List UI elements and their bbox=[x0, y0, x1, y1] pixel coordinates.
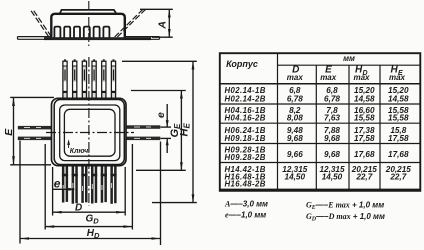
side view left lead bbox=[18, 37, 52, 40]
table grid bbox=[220, 53, 420, 191]
side view right lead bbox=[125, 37, 160, 40]
svg-text:9,68: 9,68 bbox=[324, 134, 340, 143]
dimension D bbox=[53, 167, 126, 216]
svg-text:Корпус: Корпус bbox=[226, 59, 258, 69]
top view horizontal center line bbox=[46, 132, 134, 134]
svg-text:HD: HD bbox=[87, 228, 100, 240]
svg-text:14,58: 14,58 bbox=[388, 94, 409, 103]
side view pins (staple row) bbox=[54, 27, 109, 39]
svg-text:max: max bbox=[287, 73, 304, 82]
svg-text:e: e bbox=[54, 177, 61, 191]
top view top pins bbox=[63, 61, 116, 99]
svg-text:max: max bbox=[389, 73, 406, 82]
table column of package designators bbox=[225, 86, 266, 188]
top view top pin highlights bbox=[64, 62, 115, 90]
side view top lid bbox=[60, 10, 116, 14]
top view bottom pin ticks bbox=[62, 174, 117, 177]
svg-text:15,58: 15,58 bbox=[388, 113, 409, 122]
svg-text:E: E bbox=[3, 128, 15, 136]
notes bbox=[224, 200, 385, 223]
svg-text:17,68: 17,68 bbox=[354, 150, 375, 159]
svg-text:8,08: 8,08 bbox=[287, 113, 303, 122]
dimension A bbox=[140, 9, 173, 37]
top view right leads bbox=[126, 125, 160, 140]
svg-text:Н02.14-2В: Н02.14-2В bbox=[225, 94, 266, 103]
svg-text:D: D bbox=[75, 203, 82, 214]
svg-text:9,66: 9,66 bbox=[287, 150, 303, 159]
dimension GD bbox=[45, 144, 132, 230]
svg-text:9,68: 9,68 bbox=[287, 134, 303, 143]
svg-text:max: max bbox=[353, 73, 370, 82]
svg-text:GD: GD bbox=[86, 213, 100, 225]
top view body inner outline bbox=[64, 109, 115, 156]
svg-text:GD—–D max + 1,0 мм: GD—–D max + 1,0 мм bbox=[306, 212, 385, 223]
side view center line bbox=[88, 1, 90, 46]
dimension e (right side) bbox=[161, 104, 172, 153]
svg-text:A: A bbox=[157, 21, 169, 30]
top view bottom pins bbox=[62, 166, 117, 204]
top view left leads bbox=[18, 126, 54, 140]
top view top pin caps bbox=[64, 59, 115, 61]
svg-text:Н09.18-1В: Н09.18-1В bbox=[225, 134, 266, 143]
svg-text:max: max bbox=[320, 73, 337, 82]
svg-text:мм: мм bbox=[343, 54, 355, 63]
dimension e (bottom) bbox=[53, 188, 74, 191]
svg-text:Ключ.: Ключ. bbox=[70, 148, 90, 155]
svg-text:Н04.16-2В: Н04.16-2В bbox=[225, 113, 266, 122]
svg-text:17,58: 17,58 bbox=[388, 134, 409, 143]
svg-text:14,50: 14,50 bbox=[322, 172, 343, 181]
svg-text:17,58: 17,58 bbox=[354, 134, 375, 143]
dimension HD bbox=[20, 141, 161, 246]
side view left bent-lead phantom bbox=[30, 9, 51, 36]
svg-text:GE—–E max + 1,0 мм: GE—–E max + 1,0 мм bbox=[306, 201, 384, 212]
svg-text:A—–3,0 мм: A—–3,0 мм bbox=[224, 200, 268, 209]
side view right bent-lead phantom bbox=[115, 9, 146, 37]
svg-text:7,63: 7,63 bbox=[324, 113, 340, 122]
svg-text:6,78: 6,78 bbox=[287, 94, 303, 103]
svg-text:17,68: 17,68 bbox=[388, 150, 409, 159]
svg-text:e—–1,0 мм: e—–1,0 мм bbox=[225, 211, 266, 220]
svg-text:Н09.28-2В: Н09.28-2В bbox=[225, 153, 266, 162]
dimension E bbox=[10, 97, 54, 164]
svg-text:e: e bbox=[155, 112, 167, 118]
svg-text:9,68: 9,68 bbox=[324, 150, 340, 159]
dimension GE bbox=[131, 91, 186, 171]
side view package body bbox=[51, 14, 125, 39]
svg-text:14,50: 14,50 bbox=[285, 172, 306, 181]
svg-text:Н16.48-2В: Н16.48-2В bbox=[225, 180, 266, 189]
svg-text:22,7: 22,7 bbox=[389, 172, 406, 181]
table header bbox=[226, 54, 405, 82]
top view body middle outline bbox=[60, 105, 120, 161]
svg-text:15,58: 15,58 bbox=[354, 113, 375, 122]
svg-text:14,58: 14,58 bbox=[354, 94, 375, 103]
top view top pin ticks bbox=[63, 65, 116, 67]
top view vertical center line bbox=[88, 57, 90, 206]
dimension HE bbox=[122, 61, 197, 202]
top view body flange (outermost) bbox=[52, 98, 127, 165]
svg-text:6,78: 6,78 bbox=[324, 94, 340, 103]
svg-text:22,7: 22,7 bbox=[355, 172, 372, 181]
top view body cap outline bbox=[54, 100, 124, 165]
side view base flange bbox=[44, 37, 151, 40]
table values for dimensions bbox=[282, 86, 411, 181]
key arrow bbox=[67, 139, 70, 148]
